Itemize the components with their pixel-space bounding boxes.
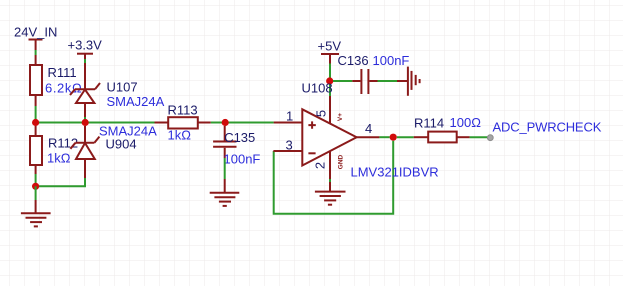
resistor R4 (R114) bbox=[414, 132, 470, 143]
wire R113 to op-amp input bbox=[211, 122, 274, 124]
svg-text:+5V: +5V bbox=[318, 39, 342, 54]
op-amp U1 (U108) bbox=[273, 96, 379, 179]
svg-text:U108: U108 bbox=[302, 81, 333, 96]
svg-text:1: 1 bbox=[286, 109, 293, 124]
svg-text:ADC_PWRCHECK: ADC_PWRCHECK bbox=[493, 119, 602, 134]
power flag 24V_IN bbox=[29, 40, 43, 51]
node endpoint ADC_PWRCHECK bbox=[487, 135, 493, 141]
svg-text:3: 3 bbox=[286, 137, 293, 152]
svg-text:100nF: 100nF bbox=[224, 151, 261, 166]
svg-text:R114: R114 bbox=[414, 115, 444, 130]
wire op-amp ground stem bbox=[329, 179, 331, 182]
wire C136 to ground right bbox=[378, 80, 398, 82]
wire U107 to node A bbox=[84, 117, 86, 123]
ground left bbox=[21, 200, 51, 226]
resistor R2 (R112) bbox=[30, 126, 42, 174]
svg-text:100nF: 100nF bbox=[373, 53, 410, 68]
ground C135 bbox=[210, 179, 240, 206]
power flag +5V bbox=[321, 54, 339, 64]
svg-text:U107: U107 bbox=[107, 80, 138, 95]
svg-text:6.2kΩ: 6.2kΩ bbox=[45, 81, 82, 96]
svg-text:C135: C135 bbox=[224, 130, 255, 145]
wire U904 to ground rail bbox=[36, 178, 85, 186]
svg-text:2: 2 bbox=[313, 162, 328, 169]
junction node at C135 bbox=[222, 119, 229, 126]
wire +5V to supply node bbox=[329, 64, 331, 97]
svg-text:1kΩ: 1kΩ bbox=[168, 128, 192, 143]
wire supply node to C136 bbox=[333, 80, 352, 82]
svg-text:100Ω: 100Ω bbox=[450, 115, 482, 130]
svg-text:U904: U904 bbox=[106, 137, 137, 152]
junction output node bbox=[390, 134, 397, 141]
junction supply node bbox=[326, 77, 333, 84]
junction node A at U107 bbox=[82, 119, 89, 126]
svg-text:SMAJ24A: SMAJ24A bbox=[107, 94, 165, 109]
svg-text:R111: R111 bbox=[48, 65, 77, 80]
wire output node to R114 bbox=[397, 136, 414, 138]
TVS diode U107 bbox=[70, 63, 100, 117]
wire main rail node A bbox=[36, 122, 155, 124]
capacitor C1 (C135) bbox=[213, 126, 236, 158]
svg-text:1kΩ: 1kΩ bbox=[47, 151, 71, 166]
TVS diode U904 bbox=[70, 126, 99, 178]
junction ground rail node bbox=[32, 183, 39, 190]
power flag +3.3V bbox=[77, 54, 93, 59]
ground op-amp bbox=[315, 182, 346, 205]
wire rail to op-amp pin 1 bbox=[229, 122, 274, 124]
svg-text:R113: R113 bbox=[168, 103, 198, 118]
svg-text:V+: V+ bbox=[337, 113, 344, 121]
svg-text:GND: GND bbox=[337, 154, 344, 169]
wire op-amp output to node bbox=[379, 136, 389, 138]
ground right rotated bbox=[397, 67, 420, 96]
wire 24V_IN stem bbox=[35, 50, 37, 55]
junction node A left bbox=[32, 119, 39, 126]
wire C135 to ground bbox=[224, 158, 226, 179]
wire ground stem left bbox=[35, 186, 37, 200]
resistor R3 (R113) bbox=[155, 117, 211, 128]
svg-text:+3.3V: +3.3V bbox=[68, 38, 103, 53]
capacitor C2 (C136) bbox=[352, 69, 377, 94]
wire +3.3V to U107 bbox=[84, 59, 86, 63]
resistor R1 (R111) bbox=[30, 55, 42, 106]
wire R111 to node A bbox=[35, 106, 37, 123]
wire R112 to ground node bbox=[35, 174, 37, 186]
wire R114 to net port bbox=[470, 136, 488, 138]
svg-text:R112: R112 bbox=[48, 136, 78, 151]
svg-text:C136: C136 bbox=[338, 53, 369, 68]
svg-text:4: 4 bbox=[365, 121, 372, 136]
svg-text:5: 5 bbox=[313, 110, 328, 117]
svg-text:LMV321IDBVR: LMV321IDBVR bbox=[351, 165, 439, 180]
wire feedback loop bbox=[274, 141, 394, 214]
svg-text:24V_IN: 24V_IN bbox=[14, 25, 57, 40]
